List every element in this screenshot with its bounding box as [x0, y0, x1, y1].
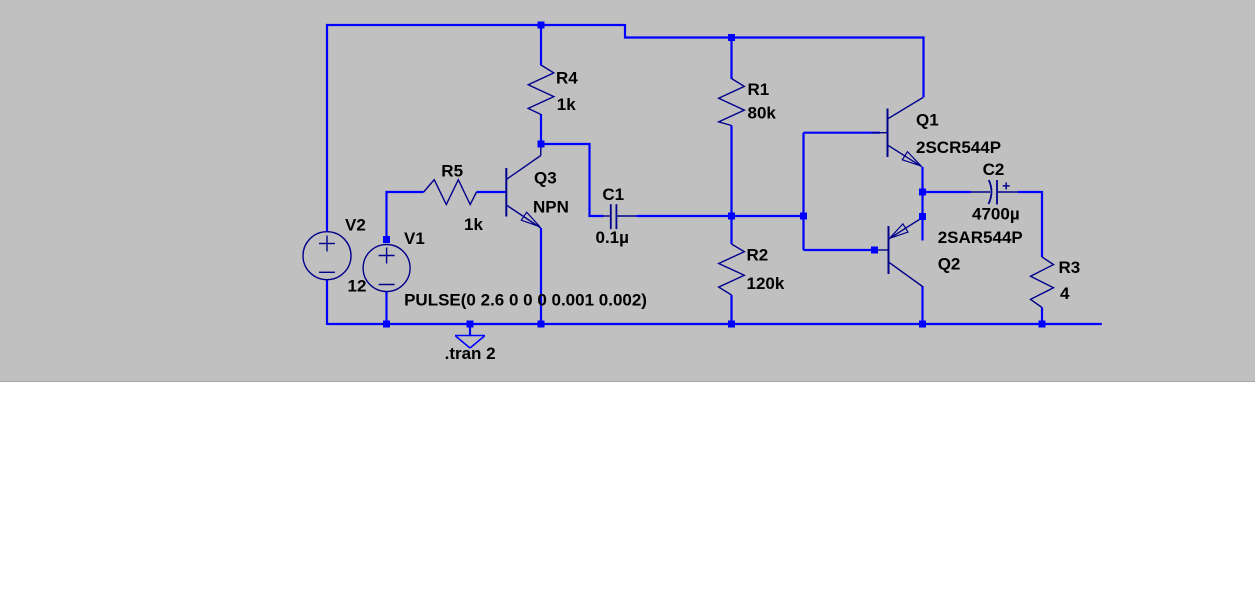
junction node V1 top	[383, 236, 390, 243]
svg-text:4700µ: 4700µ	[972, 205, 1020, 224]
wire V1 top to R5	[387, 192, 424, 240]
wire R3 bottom lead	[1041, 308, 1043, 326]
wire R2 top lead	[730, 216, 732, 244]
junction node Q2 base	[871, 247, 878, 254]
svg-text:0.1µ: 0.1µ	[596, 228, 629, 247]
svg-text:120k: 120k	[747, 274, 785, 293]
wire Q1 emitter to C2	[923, 191, 972, 193]
svg-text:4: 4	[1060, 284, 1070, 303]
svg-text:Q1: Q1	[916, 110, 939, 129]
wire R4 bottom lead	[540, 114, 542, 144]
junction node Q1 emitter	[919, 189, 926, 196]
junction node V1 bottom rail	[383, 321, 390, 328]
junction node Q3 emitter rail	[538, 321, 545, 328]
wire V2 bottom	[326, 280, 328, 326]
svg-text:2SAR544P: 2SAR544P	[938, 228, 1023, 247]
transistor Q2	[875, 218, 923, 287]
capacitor C2	[971, 180, 1019, 205]
wire base net to Q2	[804, 249, 877, 251]
wire V1 bottom	[385, 292, 387, 326]
svg-text:V2: V2	[345, 216, 366, 235]
junction node mid	[728, 213, 735, 220]
capacitor C1	[603, 204, 637, 229]
transistor Q1	[872, 98, 924, 167]
schematic background	[0, 0, 1255, 382]
svg-text:80k: 80k	[748, 104, 777, 123]
junction node ground rail	[467, 321, 474, 328]
voltage source V2	[303, 232, 351, 280]
svg-text:R3: R3	[1059, 258, 1081, 277]
junction node R1 top	[728, 34, 735, 41]
wire Q2 collector to rail	[921, 286, 923, 325]
svg-text:V1: V1	[404, 229, 425, 248]
ground	[455, 336, 485, 349]
junction node R4 bottom	[538, 141, 545, 148]
wire Q3 emitter to rail	[540, 228, 542, 325]
wire C1 to node mid	[637, 215, 732, 217]
svg-text:12: 12	[348, 276, 367, 295]
wire Q1 emitter to Q2 emitter	[921, 167, 923, 241]
resistor R5	[424, 180, 477, 205]
junction node Q2 emitter	[919, 213, 926, 220]
wire R1 bottom lead	[730, 126, 732, 217]
svg-text:R5: R5	[441, 161, 463, 180]
wire top rail jog	[625, 24, 924, 98]
junction node base net	[800, 213, 807, 220]
svg-text:2SCR544P: 2SCR544P	[916, 138, 1001, 157]
junction node R3 bottom rail	[1039, 321, 1046, 328]
svg-text:R2: R2	[747, 246, 769, 265]
transistor Q3	[506, 144, 541, 228]
wire top rail left	[327, 25, 625, 232]
wire base net to Q1	[804, 132, 881, 134]
wire node Q3-collector to C1	[541, 144, 604, 216]
wire R4 top lead	[540, 25, 542, 66]
svg-text:.tran 2: .tran 2	[445, 344, 496, 363]
resistor R2	[719, 244, 745, 295]
wire ground stub	[469, 324, 471, 335]
wire C2 to R3 top	[1018, 192, 1042, 257]
svg-text:PULSE(0 2.6 0 0 0 0.001 0.002): PULSE(0 2.6 0 0 0 0.001 0.002)	[404, 290, 647, 309]
junction node top R4	[538, 22, 545, 29]
svg-text:Q3: Q3	[534, 168, 557, 187]
svg-text:R4: R4	[556, 68, 578, 87]
voltage source V1	[363, 245, 410, 292]
wire R1 top lead	[730, 38, 732, 80]
wire node mid to base net	[732, 215, 804, 217]
svg-text:NPN: NPN	[533, 197, 569, 216]
wire bottom rail	[327, 323, 1102, 325]
svg-text:C1: C1	[602, 185, 624, 204]
wire R5 to Q3 base	[477, 191, 507, 193]
junction node R2 bottom rail	[728, 321, 735, 328]
svg-text:1k: 1k	[464, 215, 483, 234]
junction node Q2 collector rail	[919, 321, 926, 328]
wire R2 bottom lead	[730, 295, 732, 325]
wire base net vertical	[802, 133, 804, 250]
resistor R4	[528, 65, 554, 115]
svg-text:1k: 1k	[557, 95, 576, 114]
svg-text:Q2: Q2	[938, 254, 961, 273]
svg-text:C2: C2	[983, 160, 1005, 179]
resistor R1	[719, 79, 745, 126]
resistor R3	[1031, 257, 1054, 308]
svg-text:R1: R1	[748, 80, 770, 99]
